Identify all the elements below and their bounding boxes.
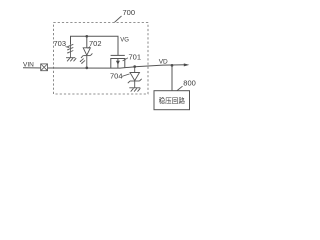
body arrow of 701 — [116, 61, 120, 65]
svg-text:703: 703 — [54, 39, 67, 48]
zener diode 704 — [128, 67, 142, 88]
transistor 701 (MOSFET) — [110, 55, 125, 68]
resistor 703 — [68, 44, 74, 57]
label 702 — [88, 39, 102, 48]
label 800 — [177, 78, 196, 90]
svg-text:VG: VG — [120, 38, 129, 44]
wire to 800 box — [171, 65, 173, 90]
label 703 — [54, 39, 70, 48]
svg-text:702: 702 — [89, 39, 102, 48]
ground (under 704) — [129, 88, 140, 92]
top wire (VG net) — [71, 36, 119, 55]
svg-text:700: 700 — [123, 8, 136, 17]
label 701 — [123, 52, 141, 61]
ground (under 703) — [66, 58, 76, 62]
svg-text:800: 800 — [183, 78, 196, 87]
node VG junction — [85, 35, 88, 38]
node (704 tap) — [133, 65, 136, 68]
terminal VIN — [41, 64, 48, 71]
label 700 — [115, 8, 136, 22]
node (702 to main wire) — [85, 67, 88, 70]
svg-text:701: 701 — [129, 52, 142, 61]
svg-text:VD: VD — [159, 59, 168, 66]
wire (702 branch) — [86, 36, 88, 48]
box 800 (voltage regulation circuit) — [154, 91, 190, 110]
dashed box 700 — [54, 23, 149, 94]
arrowhead (VD direction) — [184, 63, 190, 66]
node (branch to 800) — [171, 64, 174, 67]
main wire VIN to VD with arrow — [23, 65, 187, 68]
svg-text:稳压回路: 稳压回路 — [159, 96, 186, 105]
svg-text:704: 704 — [110, 71, 123, 80]
zener diode 702 — [80, 48, 93, 68]
label 704 — [110, 71, 130, 80]
